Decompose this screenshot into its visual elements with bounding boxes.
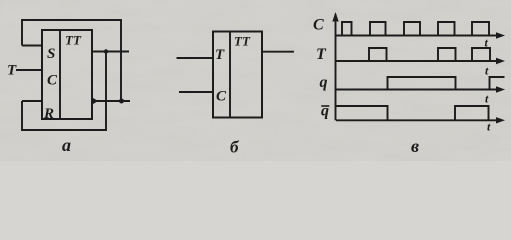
arrowhead t (q row) bbox=[496, 86, 505, 92]
U2 divider bbox=[229, 32, 231, 118]
svg-text:q: q bbox=[321, 102, 329, 119]
flip-flop U1 body bbox=[42, 30, 92, 119]
wire: feedback bottom (Q to R) bbox=[22, 52, 106, 131]
junction dot (Q to inner feedback) bbox=[104, 49, 108, 53]
wire: T input bbox=[177, 57, 214, 59]
svg-text:T: T bbox=[215, 47, 225, 63]
junction dot (Q̄ to outer feedback) bbox=[119, 99, 124, 104]
wire: output bbox=[262, 51, 294, 53]
waveform C bbox=[342, 22, 489, 36]
overbar of q̄ bbox=[321, 105, 329, 107]
U1 divider bbox=[59, 30, 61, 119]
axis t (q̄ row) bbox=[336, 119, 501, 121]
waveform T bbox=[369, 48, 490, 61]
inverse-output arrow on Q̄ bbox=[93, 98, 99, 105]
vertical axis bbox=[335, 14, 337, 120]
svg-text:C: C bbox=[313, 17, 324, 34]
axis t (T row) bbox=[336, 60, 501, 62]
svg-text:TT: TT bbox=[234, 34, 251, 49]
axis t (q row) bbox=[336, 89, 501, 91]
wire: C input bbox=[179, 91, 213, 93]
wire: T input bbox=[16, 69, 42, 71]
svg-text:q: q bbox=[320, 74, 328, 91]
wire: feedback top (Q̄ to S) bbox=[22, 20, 121, 101]
waveform q bbox=[388, 77, 505, 90]
wire: Q output bbox=[92, 51, 129, 53]
wire: R input bbox=[22, 100, 42, 102]
wire: S input bbox=[22, 45, 42, 47]
paper grain bbox=[0, 0, 511, 161]
waveform q̄ bbox=[336, 106, 489, 120]
arrowhead t (T row) bbox=[496, 58, 505, 64]
svg-text:C: C bbox=[47, 73, 58, 89]
svg-text:T: T bbox=[316, 46, 327, 63]
svg-text:T: T bbox=[7, 63, 17, 79]
svg-text:R: R bbox=[43, 106, 54, 122]
svg-text:S: S bbox=[47, 46, 55, 62]
svg-text:а: а bbox=[62, 135, 71, 155]
arrowhead t (C row) bbox=[496, 32, 505, 38]
svg-text:TT: TT bbox=[65, 33, 82, 48]
svg-text:C: C bbox=[216, 89, 227, 105]
axis t (C row) bbox=[336, 35, 501, 37]
flip-flop U2 body bbox=[213, 32, 262, 118]
svg-text:в: в bbox=[411, 136, 419, 156]
wire: Q̄ output bbox=[92, 100, 130, 102]
arrowhead t (q̄ row) bbox=[496, 117, 505, 123]
arrowhead axis up bbox=[332, 12, 338, 22]
